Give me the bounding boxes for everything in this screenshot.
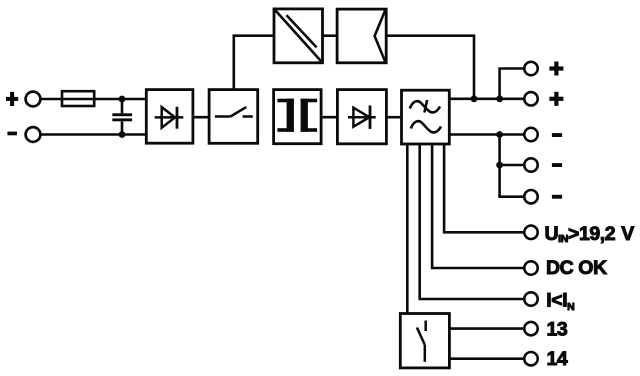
- block relay (floating contact 13/14): [400, 314, 449, 368]
- junction + rail branch: [496, 95, 503, 102]
- svg-text:DC OK: DC OK: [546, 257, 607, 279]
- input terminal +: [26, 92, 41, 107]
- wire filter to I&lt;IN signal: [420, 144, 525, 299]
- label + (input polarity): [6, 92, 18, 106]
- junction top rail / capacitor: [119, 96, 126, 103]
- diode D2 (output rectifier): [348, 106, 376, 129]
- diode D1 (input protection): [155, 107, 184, 129]
- block boost converter (diagonal symbol): [274, 9, 323, 63]
- junction - branch / - terminal 2: [496, 162, 503, 169]
- junction bottom rail / capacitor: [119, 131, 126, 138]
- wire filter to DC OK signal: [432, 144, 524, 268]
- wire boost branch to + output rail: [386, 36, 474, 99]
- wire relay to terminal 13: [449, 327, 524, 330]
- block switching stage: [209, 90, 258, 144]
- wire rectifier to switch stage: [193, 116, 209, 119]
- wire transformer to output rectifier: [321, 116, 337, 119]
- wire to - terminal 3: [498, 195, 524, 198]
- filter symbol top tilde with slash: [410, 100, 440, 113]
- wire filter to UIN signal: [444, 144, 524, 232]
- switch contact S1: [215, 107, 253, 116]
- block input rectifier: [146, 90, 193, 144]
- junction - rail branch: [496, 131, 503, 138]
- wire bottom input rail: [40, 133, 146, 136]
- label - (output 3): [552, 195, 562, 199]
- wire - branch down: [498, 135, 501, 197]
- output terminal + 2: [524, 92, 537, 105]
- relay contact symbol: [417, 321, 426, 362]
- signal terminal I&lt;IN: [524, 292, 537, 305]
- junction boost / + rail: [471, 95, 478, 102]
- transformer windings symbol: [277, 99, 317, 132]
- svg-text:14: 14: [547, 348, 568, 370]
- block boost output stage (chevron symbol): [337, 9, 386, 63]
- svg-text:13: 13: [547, 318, 568, 340]
- output terminal - 2: [524, 158, 537, 171]
- label - (input polarity): [7, 132, 17, 136]
- output terminal + 1: [524, 62, 537, 75]
- signal terminal 13: [524, 322, 537, 335]
- output terminal - 3: [524, 190, 537, 203]
- wire top input rail: [40, 98, 146, 101]
- block transformer: [274, 90, 322, 144]
- block output rectifier: [337, 90, 386, 144]
- wire + output rail: [449, 98, 524, 101]
- wire boost box 1 to boost box 2: [323, 34, 338, 37]
- output terminal - 1: [524, 128, 537, 141]
- capacitor C1: [112, 99, 132, 135]
- wire switch stage to boost branch (up): [234, 36, 274, 90]
- block output filter: [402, 90, 450, 144]
- label + (output 2): [549, 92, 563, 106]
- fuse F1: [62, 91, 94, 106]
- signal terminal 14: [524, 352, 537, 365]
- wire filter to relay: [406, 144, 409, 314]
- wire to - terminal 2: [500, 164, 525, 167]
- filter symbol bottom tilde: [411, 121, 441, 132]
- label + (output 1): [549, 62, 563, 76]
- signal terminal UIN: [524, 226, 537, 239]
- wire - output rail: [449, 133, 524, 136]
- signal terminal DC OK: [524, 261, 537, 274]
- wire branch up to + terminal 1: [500, 69, 525, 99]
- label - (output 2): [552, 163, 562, 167]
- wire output rectifier to filter: [386, 116, 401, 119]
- svg-text:I<IN: I<IN: [546, 289, 574, 313]
- label - (output 1): [552, 133, 562, 137]
- wire relay to terminal 14: [449, 357, 524, 360]
- input terminal -: [26, 127, 41, 142]
- svg-text:UIN>19,2 V: UIN>19,2 V: [545, 223, 635, 245]
